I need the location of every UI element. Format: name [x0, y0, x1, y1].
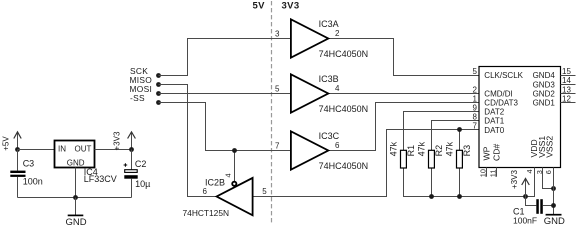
ground symbol under IC4 [65, 198, 86, 228]
capacitor C3 [10, 150, 42, 198]
wire SCK to IC3A input [159, 39, 292, 76]
voltage regulator IC4 LF33CV [55, 141, 117, 185]
svg-text:+3V3: +3V3 [112, 131, 121, 150]
svg-text:CMD/DI: CMD/DI [484, 89, 512, 98]
pin CD# stub pin 11 [496, 168, 498, 177]
svg-text:R1: R1 [406, 145, 416, 157]
svg-text:IC2B: IC2B [205, 178, 225, 188]
svg-text:DAT1: DAT1 [484, 117, 504, 126]
wire VSS2 pin 6 down to ground [553, 168, 555, 215]
svg-text:12: 12 [562, 94, 571, 103]
svg-text:47k: 47k [417, 141, 427, 156]
wire VDD pin 4 to +3V3 junction [526, 168, 535, 197]
node +3V3 bus junction [523, 194, 528, 199]
wire MOSI to IC3B input [159, 93, 292, 95]
svg-text:100n: 100n [23, 177, 43, 187]
svg-text:9: 9 [473, 104, 478, 113]
svg-text:R2: R2 [434, 145, 444, 157]
svg-text:+3V3: +3V3 [510, 170, 519, 189]
svg-text:6: 6 [544, 170, 553, 174]
pin GND1 stub pin 12 [561, 102, 576, 104]
svg-text:-SS: -SS [130, 93, 145, 103]
svg-text:3V3: 3V3 [282, 1, 300, 12]
svg-text:GND3: GND3 [533, 80, 556, 89]
svg-text:10µ: 10µ [135, 179, 150, 189]
power +5V [2, 132, 22, 151]
svg-text:C3: C3 [23, 159, 35, 169]
svg-text:R3: R3 [462, 145, 472, 157]
svg-text:IC3C: IC3C [319, 131, 340, 141]
separator dashed line between 5V and 3V3 domains [271, 1, 273, 225]
buffer IC3C [275, 131, 368, 171]
SD card connector [479, 67, 561, 168]
tri-state buffer IC2B 74HCT125N [183, 173, 268, 218]
pin WP stub pin 10 [486, 168, 488, 177]
svg-text:6: 6 [203, 187, 208, 196]
svg-text:C2: C2 [135, 159, 147, 169]
wire -SS to IC3C input [159, 103, 292, 151]
capacitor C1 [513, 197, 554, 226]
svg-text:5: 5 [275, 85, 280, 94]
svg-text:5: 5 [473, 67, 478, 76]
svg-text:IC3B: IC3B [319, 74, 339, 84]
svg-text:14: 14 [562, 76, 571, 85]
svg-text:7: 7 [275, 142, 280, 151]
wire ground bus left section [18, 197, 132, 199]
svg-text:GND2: GND2 [533, 89, 556, 98]
resistor R1 [389, 141, 417, 168]
svg-text:WP: WP [482, 146, 492, 160]
svg-text:GND1: GND1 [533, 99, 556, 108]
svg-text:DAT2: DAT2 [484, 108, 504, 117]
svg-text:+5V: +5V [2, 136, 11, 151]
svg-text:1: 1 [473, 94, 478, 103]
svg-text:VSS2: VSS2 [545, 136, 555, 158]
svg-text:74HC4050N: 74HC4050N [319, 161, 369, 171]
svg-text:11: 11 [489, 170, 498, 178]
svg-text:2: 2 [335, 29, 340, 38]
power +3V3 near C1 [510, 170, 529, 197]
wire IC4 OUT to +3V3/C2 [95, 149, 132, 151]
wire DAT1 row to R2 top [432, 121, 480, 151]
svg-text:CD#: CD# [491, 144, 501, 161]
svg-text:74HC4050N: 74HC4050N [319, 49, 369, 59]
node +5V junction [15, 147, 20, 152]
svg-text:LF33CV: LF33CV [84, 174, 117, 184]
svg-text:2: 2 [473, 85, 478, 94]
node +3V3 junction [129, 147, 134, 152]
pin GND2 stub pin 13 [561, 93, 576, 95]
capacitor C2 (polarized) [124, 150, 151, 198]
svg-text:10: 10 [479, 169, 488, 177]
wire pull-up bottom bus to +3V3 [404, 168, 526, 197]
svg-text:74HCT125N: 74HCT125N [183, 208, 230, 218]
svg-text:OUT: OUT [75, 145, 92, 154]
svg-text:4: 4 [335, 84, 340, 93]
wire MISO to IC2B output [159, 85, 217, 197]
svg-text:DAT0: DAT0 [484, 126, 504, 135]
svg-text:47k: 47k [445, 141, 455, 156]
pin GND4 stub pin 15 [561, 75, 576, 77]
svg-text:IC3A: IC3A [319, 19, 339, 29]
svg-text:4: 4 [525, 169, 534, 173]
svg-text:47k: 47k [389, 141, 399, 156]
resistor R2 [417, 141, 445, 168]
wire junction to IC2B enable pin 4 [234, 151, 236, 182]
wire +5V to IC4 IN [18, 149, 55, 151]
svg-text:13: 13 [562, 85, 571, 94]
wire IC3B output to connector pin 2 CMD/DI [328, 93, 479, 95]
svg-text:GND: GND [544, 216, 565, 227]
wire IC3C output to connector pin 1 CD/DAT3 [328, 103, 479, 151]
svg-text:3: 3 [275, 30, 280, 39]
svg-text:74HC4050N: 74HC4050N [319, 104, 369, 114]
svg-text:GND: GND [67, 158, 85, 167]
pin GND3 stub pin 14 [561, 84, 576, 86]
svg-text:8: 8 [473, 113, 478, 122]
wire R3 top tap on DAT0 [459, 130, 461, 151]
power +3V3 at regulator output [112, 131, 135, 150]
svg-text:15: 15 [562, 67, 571, 76]
buffer IC3B [275, 74, 368, 114]
svg-text:4: 4 [224, 173, 233, 177]
svg-text:GND4: GND4 [533, 71, 556, 80]
wire DAT0 row to IC2B input [253, 130, 479, 197]
resistor R3 [445, 141, 473, 168]
svg-text:100nF: 100nF [513, 216, 537, 226]
wire IC4 GND pin to bus [75, 168, 77, 198]
svg-text:GND: GND [65, 217, 86, 228]
svg-text:6: 6 [335, 141, 340, 150]
svg-text:5V: 5V [253, 1, 266, 12]
svg-text:7: 7 [473, 122, 478, 131]
wire DAT2 row to R1 top [404, 112, 480, 151]
ground symbol at C1 [544, 215, 565, 227]
svg-text:CD/DAT3: CD/DAT3 [484, 99, 518, 108]
wire VSS1 pin 3 join VSS2 [543, 168, 554, 189]
wire IC3A output to connector pin 5 CLK/SCLK [328, 39, 479, 76]
svg-text:CLK/SCLK: CLK/SCLK [484, 71, 523, 80]
svg-text:5: 5 [262, 187, 267, 196]
svg-text:IN: IN [58, 145, 66, 154]
buffer IC3A [275, 19, 368, 59]
